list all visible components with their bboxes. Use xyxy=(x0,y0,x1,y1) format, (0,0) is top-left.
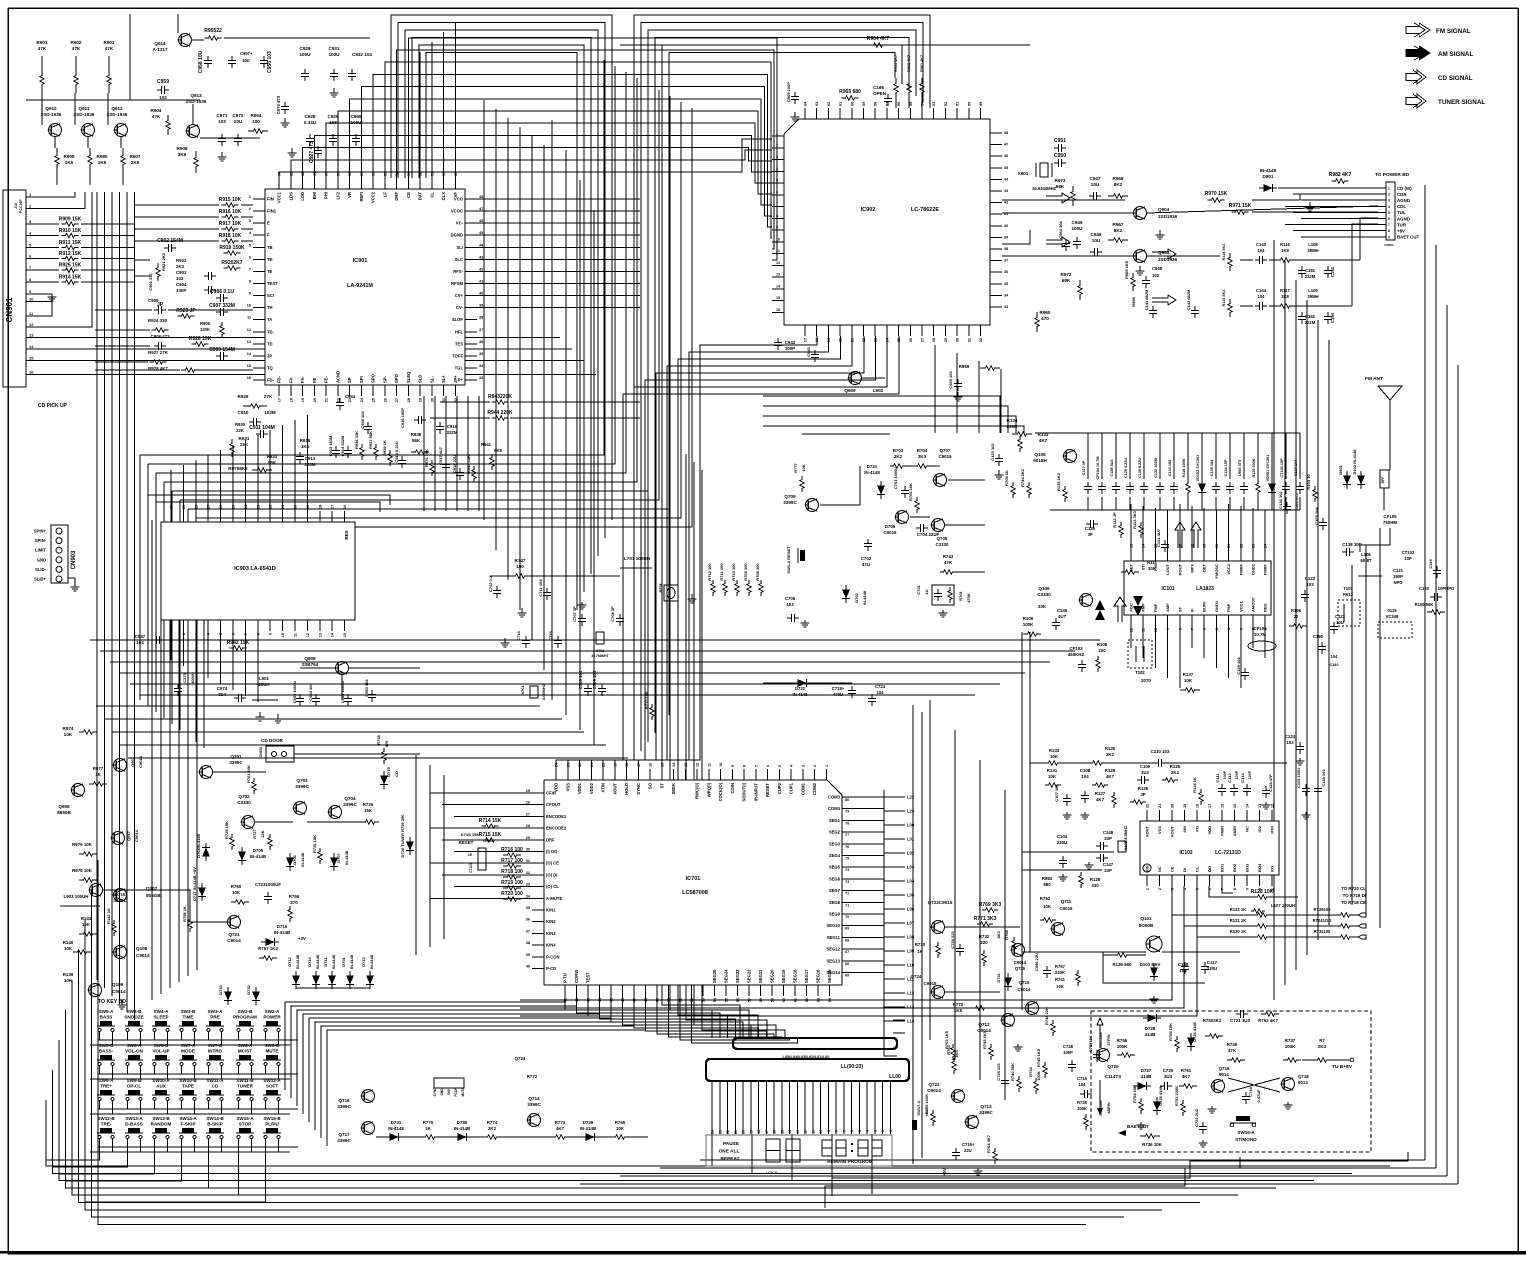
sheet border xyxy=(8,7,1518,9)
wire xyxy=(90,1151,290,1153)
svg-text:37PIN: 37PIN xyxy=(1106,1034,1111,1045)
svg-text:43: 43 xyxy=(1004,189,1008,193)
ground X702 xyxy=(581,602,583,605)
svg-text:6: 6 xyxy=(249,255,251,259)
svg-text:C942: C942 xyxy=(785,340,796,345)
svg-text:SODUT(I): SODUT(I) xyxy=(742,782,747,801)
IC101 pin 11 xyxy=(1142,615,1144,626)
wire xyxy=(95,329,150,331)
svg-text:R758 1K: R758 1K xyxy=(182,906,187,922)
svg-text:48: 48 xyxy=(1004,131,1008,135)
svg-text:27: 27 xyxy=(395,398,399,402)
wire bus staircase xyxy=(140,350,604,455)
svg-text:SW3-B: SW3-B xyxy=(181,1009,196,1014)
IC701 pin 4 xyxy=(790,769,792,780)
svg-text:R763: R763 xyxy=(946,1044,951,1054)
IC901 pin 21 xyxy=(325,385,327,396)
svg-text:BAETCUT: BAETCUT xyxy=(1127,1124,1149,1129)
svg-text:C143: C143 xyxy=(1256,242,1267,247)
svg-text:6: 6 xyxy=(1388,217,1390,221)
IC701 pin 19 xyxy=(614,769,616,780)
wire xyxy=(912,705,914,1164)
svg-text:D727: D727 xyxy=(1141,1068,1152,1073)
wire xyxy=(930,465,940,467)
resistor R925 xyxy=(62,268,79,272)
capacitor C927 473 xyxy=(317,146,319,151)
svg-text:C917 4U7: C917 4U7 xyxy=(438,446,443,465)
svg-text:2SD-1936: 2SD-1936 xyxy=(41,112,62,117)
svg-text:C702: C702 xyxy=(861,556,872,561)
IC901 pin 12 xyxy=(253,331,265,333)
svg-text:Q105: Q105 xyxy=(1034,452,1046,457)
svg-text:33: 33 xyxy=(526,883,530,887)
wire xyxy=(1233,896,1254,898)
svg-text:8: 8 xyxy=(249,279,251,283)
svg-text:10K: 10K xyxy=(801,464,806,471)
IC901 pin 35 xyxy=(465,355,477,357)
svg-text:R933: R933 xyxy=(267,454,278,459)
svg-text:SEG10: SEG10 xyxy=(826,923,840,928)
IC901 pin 15 xyxy=(253,367,265,369)
svg-text:11: 11 xyxy=(1142,628,1146,632)
IC701 pin 31 xyxy=(532,862,544,864)
svg-text:JP: JP xyxy=(267,353,272,358)
wire bus IC902-IC701 xyxy=(615,336,876,769)
IC101 pin 13 xyxy=(1130,550,1132,561)
IC902 pin 19 xyxy=(827,325,829,336)
IC902 pin 18 xyxy=(816,325,818,336)
svg-text:R930: R930 xyxy=(235,422,246,427)
svg-text:R105 56K: R105 56K xyxy=(1415,602,1434,607)
wire xyxy=(129,14,131,100)
svg-text:POWER: POWER xyxy=(263,1015,281,1020)
wire xyxy=(232,631,234,690)
wire xyxy=(430,792,532,794)
wire xyxy=(979,760,981,1080)
svg-text:5: 5 xyxy=(1388,211,1390,215)
svg-text:R132: R132 xyxy=(1049,748,1060,753)
wire bus bottom loop xyxy=(98,860,1086,1224)
svg-text:BO2: BO2 xyxy=(1232,863,1237,872)
IC701 pin 56 xyxy=(737,985,739,996)
IC101 pin 17 xyxy=(1179,550,1181,561)
IC901 pin 11 xyxy=(253,319,265,321)
wire xyxy=(26,192,85,209)
svg-text:CD DOOR: CD DOOR xyxy=(261,738,283,743)
svg-text:C190: C190 xyxy=(1313,634,1324,639)
svg-text:1U: 1U xyxy=(924,589,929,594)
svg-text:8: 8 xyxy=(743,765,747,767)
svg-text:C996 22U: C996 22U xyxy=(1034,953,1039,971)
svg-text:20: 20 xyxy=(294,505,298,509)
IC902 pin 31 xyxy=(968,325,970,336)
svg-text:SPIN+: SPIN+ xyxy=(34,529,47,534)
svg-text:C703 1000U: C703 1000U xyxy=(893,467,898,490)
IC101 pin 10 xyxy=(1154,615,1156,626)
7-segment small digits 88:88 xyxy=(822,1140,832,1156)
svg-text:R129: R129 xyxy=(1105,768,1116,773)
ground C712 xyxy=(521,608,523,613)
wire bus mid horizontal xyxy=(120,672,1025,674)
wire xyxy=(120,744,606,746)
svg-text:+3V: +3V xyxy=(298,936,306,941)
svg-text:26: 26 xyxy=(526,801,530,805)
wire xyxy=(178,538,180,982)
svg-text:32: 32 xyxy=(526,871,530,875)
svg-text:4K7: 4K7 xyxy=(1096,797,1105,802)
svg-text:BO1: BO1 xyxy=(1220,863,1225,872)
svg-text:D733: D733 xyxy=(218,984,223,994)
svg-text:TGL: TGL xyxy=(455,365,464,370)
svg-text:CN902: CN902 xyxy=(483,839,493,843)
svg-text:23: 23 xyxy=(1252,544,1256,548)
wire xyxy=(135,240,219,242)
svg-text:29: 29 xyxy=(182,505,186,509)
resistor R719 100 xyxy=(503,886,521,890)
wire xyxy=(303,996,600,1114)
svg-text:C138 30P: C138 30P xyxy=(1342,542,1362,547)
svg-text:70: 70 xyxy=(845,915,849,919)
svg-text:3399C: 3399C xyxy=(783,500,797,505)
wire xyxy=(477,234,640,236)
svg-text:10K: 10K xyxy=(64,978,73,983)
svg-text:TUNER SIGNAL: TUNER SIGNAL xyxy=(1438,99,1485,106)
svg-text:222M: 222M xyxy=(1305,320,1316,325)
transistor Q907 C9014 xyxy=(114,759,127,772)
svg-text:BPF: BPF xyxy=(1381,477,1385,484)
svg-text:R116: R116 xyxy=(1280,242,1290,247)
svg-text:15: 15 xyxy=(247,364,251,368)
IC902 pin 5 xyxy=(772,182,784,184)
svg-text:RESET: RESET xyxy=(459,840,474,845)
svg-text:L03: L03 xyxy=(907,865,915,870)
svg-text:MPX: MPX xyxy=(1190,564,1195,573)
svg-text:Q914: Q914 xyxy=(154,41,166,46)
wire xyxy=(192,104,194,124)
svg-text:D710: D710 xyxy=(307,956,312,966)
svg-text:C9014: C9014 xyxy=(227,938,241,943)
svg-text:TEST: TEST xyxy=(586,972,591,983)
svg-text:R109: R109 xyxy=(1023,616,1034,621)
svg-text:D730: D730 xyxy=(457,1120,468,1125)
wire xyxy=(1301,218,1378,220)
wire xyxy=(520,937,1197,1016)
IC701 pin 27 xyxy=(532,815,544,817)
IC903 pin 22 xyxy=(269,511,271,522)
svg-text:7: 7 xyxy=(842,1130,846,1132)
svg-text:20: 20 xyxy=(839,338,843,342)
wire xyxy=(95,369,180,371)
resistor R911 xyxy=(62,245,79,249)
svg-text:10PNPO: 10PNPO xyxy=(1438,586,1455,591)
wire xyxy=(415,755,417,955)
svg-text:100K: 100K xyxy=(1023,622,1034,627)
wire bus left xyxy=(111,192,113,996)
svg-text:40: 40 xyxy=(1004,224,1008,228)
wire xyxy=(232,445,234,511)
svg-text:15: 15 xyxy=(1233,804,1237,808)
IC701 pin 26 xyxy=(532,804,544,806)
wire xyxy=(1252,199,1300,201)
svg-text:R120 1K: R120 1K xyxy=(1230,929,1247,934)
IC701 pin 69 xyxy=(842,925,884,927)
svg-text:R753 220K: R753 220K xyxy=(1174,1086,1179,1106)
terminal R724 xyxy=(1352,924,1366,928)
wire xyxy=(72,1147,209,1188)
svg-text:SO: SO xyxy=(648,782,653,789)
wire xyxy=(99,1142,101,1147)
svg-text:C105 104: C105 104 xyxy=(1314,507,1319,525)
svg-text:R7241OO: R7241OO xyxy=(1313,918,1333,923)
svg-text:33K: 33K xyxy=(1038,604,1047,609)
wire xyxy=(634,996,759,1038)
svg-text:470: 470 xyxy=(384,740,389,747)
svg-text:TAPE: TAPE xyxy=(182,1084,194,1089)
wire xyxy=(694,462,776,1038)
svg-text:10K: 10K xyxy=(1043,904,1052,909)
svg-text:9: 9 xyxy=(1166,628,1170,630)
svg-text:R134: R134 xyxy=(1007,418,1018,423)
svg-text:120K: 120K xyxy=(200,327,210,332)
IC901 pin 58 xyxy=(349,178,351,189)
svg-text:LA-9241M: LA-9241M xyxy=(347,283,373,289)
svg-text:LF2: LF2 xyxy=(335,191,340,199)
IC901 pin 7 xyxy=(253,270,265,272)
ground C114 xyxy=(1265,802,1267,805)
svg-text:AGC: AGC xyxy=(1129,603,1134,612)
svg-text:3399C: 3399C xyxy=(979,1110,993,1115)
wire xyxy=(1278,187,1378,189)
svg-text:2: 2 xyxy=(182,633,186,635)
IC901 pin 37 xyxy=(465,331,477,333)
wire xyxy=(154,1035,156,1040)
IC903 pin 9 xyxy=(269,620,271,631)
svg-text:100P: 100P xyxy=(1063,1050,1073,1055)
wire bus staircase xyxy=(172,390,648,491)
svg-text:25: 25 xyxy=(897,338,901,342)
wire bus left-center vertical xyxy=(507,118,509,580)
IC701 pin 58 xyxy=(760,985,762,996)
wire xyxy=(120,137,122,148)
capacitor C907 332M xyxy=(216,311,221,313)
svg-text:50: 50 xyxy=(967,102,971,106)
svg-text:100P: 100P xyxy=(1235,770,1239,779)
svg-text:C124: C124 xyxy=(1285,734,1296,739)
svg-text:REG: REG xyxy=(1263,603,1268,612)
IC901 pin 25 xyxy=(372,385,374,396)
svg-text:C911 104M: C911 104M xyxy=(249,425,275,431)
ground C125 xyxy=(998,470,1000,475)
svg-text:10K: 10K xyxy=(232,890,241,895)
svg-text:21: 21 xyxy=(325,398,329,402)
svg-text:3399C: 3399C xyxy=(113,898,127,903)
svg-text:(O) CE: (O) CE xyxy=(546,861,559,866)
svg-text:R117: R117 xyxy=(1280,288,1290,293)
IC901 pin 10 xyxy=(253,307,265,309)
svg-text:C722 2U2: C722 2U2 xyxy=(1194,1108,1199,1127)
svg-text:STOP: STOP xyxy=(239,1122,251,1127)
wire xyxy=(1000,369,1002,433)
wire xyxy=(1184,886,1220,926)
wire bus mid horizontal xyxy=(130,683,1000,685)
svg-text:IN-4148: IN-4148 xyxy=(300,852,305,867)
svg-text:76: 76 xyxy=(845,845,849,849)
svg-text:Q701: Q701 xyxy=(230,754,242,759)
wire bus IC901-IC902 xyxy=(373,74,772,227)
svg-text:PHI: PHI xyxy=(324,192,329,199)
wire bus staircase xyxy=(180,400,659,500)
wire xyxy=(884,1035,897,1056)
svg-text:16: 16 xyxy=(1221,804,1225,808)
svg-text:18: 18 xyxy=(1196,804,1200,808)
svg-text:AMF: AMF xyxy=(1165,603,1170,612)
wire xyxy=(207,631,209,678)
svg-text:SEG9: SEG9 xyxy=(829,912,841,917)
svg-text:R128: R128 xyxy=(1090,877,1101,882)
wire xyxy=(1167,626,1169,678)
IC101 pin 21 xyxy=(1228,550,1230,561)
svg-text:17: 17 xyxy=(278,398,282,402)
IC701 pin 61 xyxy=(794,985,796,996)
ground C118 xyxy=(1305,812,1307,815)
wire xyxy=(477,258,640,260)
wire xyxy=(678,446,758,1038)
svg-text:R973: R973 xyxy=(1055,178,1066,183)
svg-text:7: 7 xyxy=(1191,628,1195,630)
svg-text:FIN1: FIN1 xyxy=(267,209,277,214)
svg-text:1K: 1K xyxy=(917,949,923,954)
svg-text:SW15-A: SW15-A xyxy=(236,1116,254,1121)
svg-text:R923 JP: R923 JP xyxy=(176,308,196,314)
svg-text:42: 42 xyxy=(1004,201,1008,205)
svg-text:TEST: TEST xyxy=(267,281,278,286)
wire bus staircase xyxy=(196,420,681,518)
svg-text:18: 18 xyxy=(815,338,819,342)
CN951 pin 1 xyxy=(1378,187,1386,189)
svg-text:R777: R777 xyxy=(793,462,798,472)
IC901 pin 28 xyxy=(407,385,409,396)
resistor R955 22 xyxy=(205,36,222,40)
svg-text:R910 15K: R910 15K xyxy=(59,228,82,234)
ground Q101 xyxy=(1153,996,1155,999)
wire bus left vertical xyxy=(203,527,205,748)
svg-text:AGND: AGND xyxy=(1397,216,1410,221)
svg-text:R757 1K2: R757 1K2 xyxy=(258,946,278,951)
wire xyxy=(1029,632,1031,952)
svg-text:Q723C9015: Q723C9015 xyxy=(928,900,953,905)
svg-text:X701: X701 xyxy=(520,685,525,695)
IC901 pin 34 xyxy=(465,367,477,369)
svg-text:C928: C928 xyxy=(305,114,316,119)
svg-text:AOUT: AOUT xyxy=(1170,825,1175,837)
svg-text:29: 29 xyxy=(526,836,530,840)
IC701 pin 51 xyxy=(679,985,681,996)
svg-text:D103 5.6V: D103 5.6V xyxy=(1140,962,1161,967)
svg-text:SW11-B: SW11-B xyxy=(236,1078,254,1083)
svg-text:8K2: 8K2 xyxy=(1114,182,1123,187)
svg-text:R126: R126 xyxy=(1138,786,1149,791)
svg-text:IN-4148: IN-4148 xyxy=(295,954,300,969)
IC102 pin 6 xyxy=(1209,875,1211,886)
svg-text:R979 10K: R979 10K xyxy=(72,842,93,847)
svg-text:PRE: PRE xyxy=(210,1015,219,1020)
IC701 pin 10 xyxy=(720,769,722,780)
wire bus far right xyxy=(1435,245,1437,1168)
svg-text:38: 38 xyxy=(479,316,483,320)
svg-text:39MH: 39MH xyxy=(1307,248,1318,253)
svg-text:L107 100UH: L107 100UH xyxy=(1271,903,1295,908)
wire xyxy=(265,1069,267,1074)
svg-text:11: 11 xyxy=(776,249,780,253)
wire xyxy=(151,520,153,1000)
wire xyxy=(1002,199,1125,201)
svg-text:D721: D721 xyxy=(867,464,878,469)
svg-text:D901: D901 xyxy=(1338,464,1343,474)
IC102 pin 2 xyxy=(1159,875,1161,886)
svg-text:TE: TE xyxy=(267,269,273,274)
svg-text:10: 10 xyxy=(29,297,34,302)
IC102 pin 7 xyxy=(1221,875,1223,886)
svg-text:CL: CL xyxy=(1195,866,1200,872)
resistor R970 15K xyxy=(1208,198,1225,202)
wire xyxy=(238,1142,240,1147)
IC901 pin 49 xyxy=(454,178,456,189)
IC902 pin 44 xyxy=(990,178,1002,180)
IC901 pin 59 xyxy=(337,178,339,189)
IC701 pin 32 xyxy=(532,874,544,876)
wire xyxy=(1147,255,1220,257)
svg-text:CD SIGNAL: CD SIGNAL xyxy=(1438,75,1473,82)
wire xyxy=(477,210,640,212)
wire bus mid horizontal xyxy=(110,661,1050,663)
wire bus left-center vertical xyxy=(519,127,521,610)
wire xyxy=(921,712,923,1158)
IC901 pin 13 xyxy=(253,343,265,345)
svg-text:IN-4148: IN-4148 xyxy=(315,954,320,969)
svg-text:SOFT: SOFT xyxy=(266,1084,278,1089)
connector SYNC 5V8 PCON MUTE xyxy=(434,1078,464,1088)
IC903 pin 1 xyxy=(170,620,172,631)
svg-text:T102: T102 xyxy=(1135,670,1145,675)
svg-text:(O) DI: (O) DI xyxy=(546,872,557,877)
svg-text:104: 104 xyxy=(1258,294,1266,299)
wire xyxy=(825,1157,1240,1208)
svg-text:C721 3U3: C721 3U3 xyxy=(1230,1018,1250,1023)
svg-text:18: 18 xyxy=(757,1130,761,1134)
wire xyxy=(551,120,553,700)
svg-text:9: 9 xyxy=(731,765,735,767)
svg-text:71: 71 xyxy=(845,903,849,907)
wire xyxy=(763,396,1000,433)
svg-text:IO1: IO1 xyxy=(1270,865,1275,872)
svg-text:10: 10 xyxy=(1154,628,1158,632)
svg-text:R774: R774 xyxy=(487,1120,498,1125)
IC902 pin 64 xyxy=(804,108,806,119)
IC701 pin 75 xyxy=(842,855,884,857)
svg-text:333: 333 xyxy=(176,276,184,281)
svg-text:60:8T: 60:8T xyxy=(1361,558,1372,563)
IC701 pin 39 xyxy=(532,956,544,958)
svg-text:C715: C715 xyxy=(1077,1076,1088,1081)
wire xyxy=(1240,626,1242,688)
ground C970 xyxy=(284,118,286,123)
arrow FM signal up xyxy=(1175,522,1185,548)
svg-text:C166: C166 xyxy=(873,85,884,90)
svg-text:222M: 222M xyxy=(1305,274,1316,279)
wire xyxy=(454,815,532,817)
svg-text:35: 35 xyxy=(526,906,530,910)
IC102 pin 22 xyxy=(1146,810,1148,821)
